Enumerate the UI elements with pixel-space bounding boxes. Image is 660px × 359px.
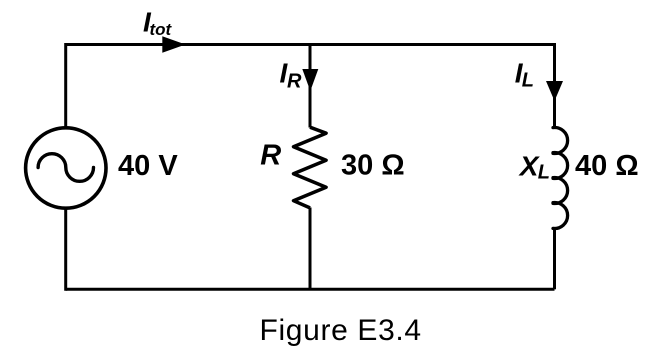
svg-text:L: L (522, 70, 534, 92)
svg-text:R: R (287, 70, 302, 92)
svg-text:Figure E3.4: Figure E3.4 (260, 314, 422, 347)
svg-text:40 V: 40 V (118, 150, 178, 182)
svg-text:40 Ω: 40 Ω (575, 150, 639, 182)
svg-text:30 Ω: 30 Ω (341, 150, 405, 182)
svg-text:tot: tot (150, 20, 173, 39)
svg-text:R: R (260, 140, 281, 172)
svg-text:L: L (538, 162, 550, 184)
